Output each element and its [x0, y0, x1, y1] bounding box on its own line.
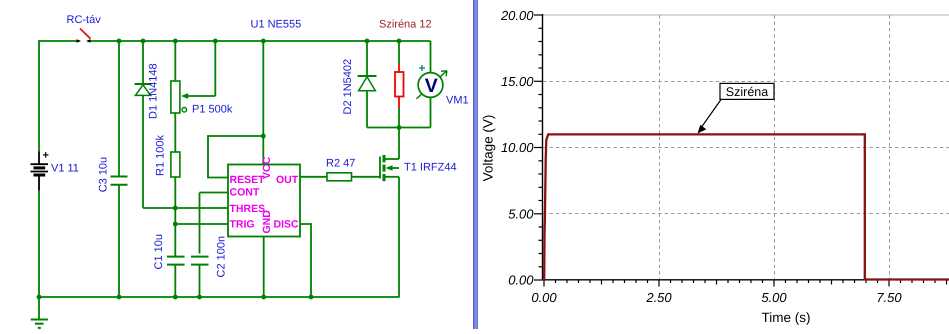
svg-text:+: +	[43, 150, 49, 162]
node sziréna bottom	[397, 125, 402, 130]
op-amp U1 NE555 box	[228, 165, 300, 237]
annotation box Sziréna	[720, 83, 774, 99]
svg-text:D2 1N5402: D2 1N5402	[342, 59, 354, 115]
node RESET-VCC junction	[261, 134, 266, 139]
node C1 bottom	[173, 295, 178, 300]
svg-text:THRES: THRES	[230, 203, 266, 215]
diode D1 1N4148	[135, 41, 152, 208]
node wiper top	[213, 39, 218, 44]
y axis	[542, 14, 544, 281]
node C3 bottom	[117, 295, 122, 300]
capacitor C1 10u	[167, 257, 185, 297]
svg-text:V: V	[425, 75, 438, 97]
chart panel	[477, 0, 949, 329]
wire TRIG horizontal	[175, 223, 228, 225]
svg-text:7.50: 7.50	[876, 290, 902, 305]
svg-text:RESET: RESET	[230, 174, 266, 186]
wire left rail upper	[38, 40, 40, 151]
svg-text:Sziréna: Sziréna	[726, 85, 768, 99]
svg-text:C1 10u: C1 10u	[153, 234, 165, 269]
svg-text:RC-táv: RC-táv	[67, 14, 102, 26]
node VCC top	[261, 39, 266, 44]
transistor T1 IRFZ44	[380, 128, 399, 298]
node D1 top	[141, 39, 146, 44]
gridline y 15.00	[543, 81, 949, 83]
switch RC-táv lever	[80, 29, 91, 39]
svg-text:CONT: CONT	[230, 186, 260, 198]
svg-text:V1 11: V1 11	[51, 163, 79, 175]
wire top rail right of switch	[88, 40, 431, 42]
node P1 top	[173, 39, 178, 44]
svg-text:GND: GND	[261, 210, 273, 234]
gridline x 2.50	[659, 15, 661, 279]
wire CONT horizontal	[200, 192, 229, 194]
splitter divider	[473, 0, 478, 329]
wire parallel bottom bus	[367, 127, 431, 129]
ground	[31, 297, 48, 328]
y axis ticks	[534, 15, 543, 280]
svg-text:Sziréna 12: Sziréna 12	[379, 19, 432, 31]
wire DISC	[300, 224, 311, 297]
svg-text:VM1: VM1	[446, 95, 469, 107]
svg-text:0.00: 0.00	[508, 273, 534, 288]
svg-text:TRIG: TRIG	[230, 219, 255, 231]
node D2 top	[365, 39, 370, 44]
sziréna leads	[395, 64, 404, 108]
svg-text:VCC: VCC	[261, 156, 273, 179]
wire RESET loop	[208, 136, 263, 178]
svg-text:0.00: 0.00	[531, 290, 557, 305]
svg-text:+: +	[419, 61, 426, 75]
svg-text:P1 500k: P1 500k	[192, 104, 233, 116]
capacitor C3	[111, 41, 128, 297]
svg-text:R1 100k: R1 100k	[155, 135, 167, 176]
svg-text:5.00: 5.00	[761, 290, 787, 305]
switch RC-táv contacts	[77, 39, 91, 43]
gridline y 10.00	[543, 147, 949, 149]
svg-text:T1 IRFZ44: T1 IRFZ44	[404, 162, 457, 174]
wire THRES horizontal	[143, 207, 228, 209]
wire R2 to gate	[352, 176, 381, 178]
node THRES-R1 junction	[173, 206, 178, 211]
annotation arrow	[700, 100, 722, 131]
svg-text:U1 NE555: U1 NE555	[251, 19, 302, 31]
node C3 top	[117, 39, 122, 44]
gridline x 7.50	[889, 15, 891, 279]
wire VCC vertical	[262, 41, 264, 165]
diode D2 1N5402	[358, 41, 377, 128]
svg-text:Time (s): Time (s)	[762, 310, 811, 325]
gridline x 5.00	[774, 15, 776, 279]
wire GND vertical	[263, 237, 265, 298]
x axis ticks	[544, 280, 947, 287]
wire top rail left of switch	[39, 40, 80, 42]
svg-text:20.00: 20.00	[500, 8, 534, 23]
node bottom-left junction	[37, 295, 42, 300]
svg-text:C3 10u: C3 10u	[98, 157, 110, 192]
x labels	[531, 290, 902, 305]
y labels	[500, 8, 534, 288]
gridline y 5.00	[543, 213, 949, 215]
svg-text:DISC: DISC	[274, 219, 300, 231]
resistor R1 100k	[171, 152, 180, 256]
resistor R2 47	[327, 173, 352, 181]
svg-text:R2 47: R2 47	[326, 158, 355, 170]
svg-text:Voltage (V): Voltage (V)	[481, 115, 496, 182]
schematic panel	[0, 0, 472, 329]
voltmeter VM1	[417, 41, 447, 128]
svg-text:10.00: 10.00	[501, 140, 534, 155]
wire CONT vertical	[199, 193, 201, 254]
node DISC bottom	[309, 295, 314, 300]
svg-text:OUT: OUT	[276, 174, 299, 186]
battery V1	[31, 152, 49, 191]
x axis	[543, 279, 949, 281]
svg-text:2.50: 2.50	[645, 290, 672, 305]
svg-text:D1 1N4148: D1 1N4148	[148, 63, 160, 119]
capacitor C2 100n	[191, 257, 209, 297]
node sziréna top	[397, 39, 402, 44]
svg-text:15.00: 15.00	[501, 74, 534, 89]
wire OUT horizontal	[300, 176, 327, 178]
wire bottom rail	[38, 296, 400, 298]
svg-text:5.00: 5.00	[508, 207, 534, 222]
chart top border	[543, 14, 949, 16]
P1 terminal circle	[182, 108, 187, 113]
sziréna wires	[398, 41, 400, 64]
node GND bottom	[261, 295, 266, 300]
node TRIG junction	[173, 222, 178, 227]
wire left rail lower	[38, 191, 40, 298]
svg-text:C2 100n: C2 100n	[216, 236, 228, 278]
P1 wiper arrow	[181, 41, 215, 99]
curve Sziréna trace	[544, 134, 949, 280]
potentiometer P1 500k	[171, 41, 180, 152]
node C2 bottom	[197, 295, 202, 300]
